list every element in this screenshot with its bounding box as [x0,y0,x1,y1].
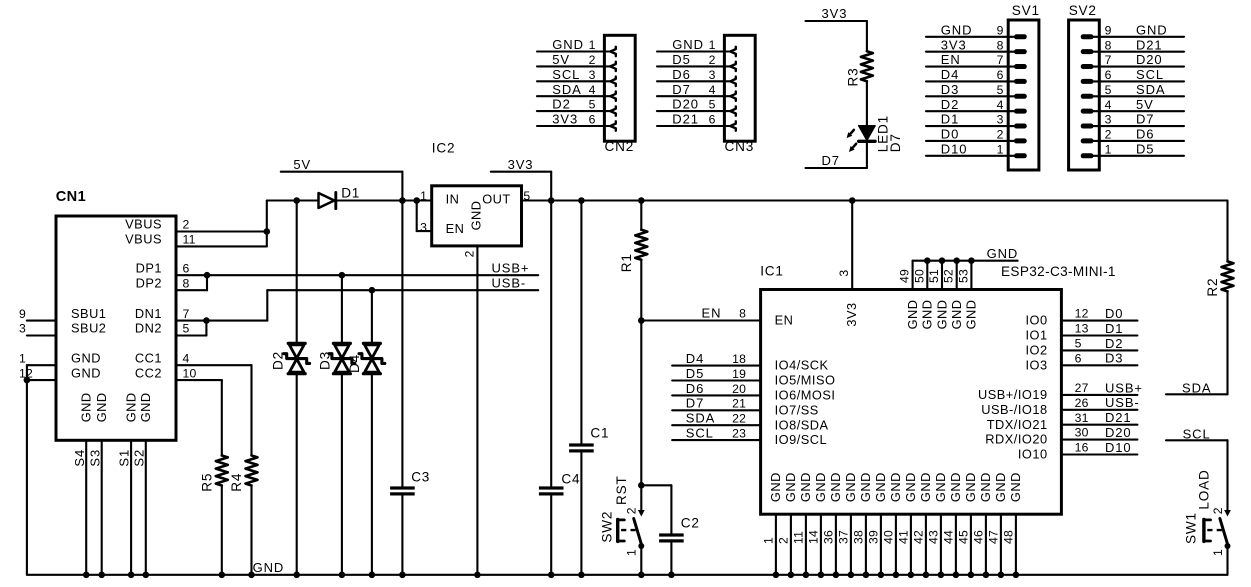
svg-text:3: 3 [420,221,427,235]
svg-text:23: 23 [732,427,746,441]
svg-text:D4: D4 [941,67,959,82]
svg-text:9: 9 [997,23,1004,37]
svg-text:S2: S2 [131,449,146,467]
svg-text:SBU2: SBU2 [71,321,106,336]
svg-text:20: 20 [732,382,746,396]
wire CN2 pin 4 net SDA [537,82,616,101]
svg-text:GND: GND [905,299,920,329]
wire SV1 pin 3 net D1 [926,112,1027,129]
svg-text:USB+: USB+ [492,261,530,276]
svg-text:GND: GND [948,472,963,502]
svg-text:8: 8 [997,38,1004,52]
svg-text:49: 49 [898,269,912,283]
svg-text:GND: GND [1136,22,1168,37]
svg-text:R5: R5 [200,473,215,492]
svg-text:2: 2 [709,53,716,67]
svg-text:41: 41 [896,530,910,544]
svg-text:D0: D0 [1105,306,1123,321]
svg-text:IN: IN [446,191,460,206]
svg-text:3V3: 3V3 [552,112,578,127]
svg-text:6: 6 [709,113,716,127]
svg-text:D1: D1 [1105,321,1123,336]
svg-text:SDA: SDA [686,411,715,426]
wire CN2 pin 3 net SCL [537,67,616,86]
svg-text:1: 1 [589,38,596,52]
svg-text:5: 5 [183,322,190,336]
wire SV1 pin 4 net D2 [926,97,1027,114]
capacitor C1 [569,425,609,452]
wire IC1 pin 30 net D20 [1061,425,1137,440]
svg-text:GND: GND [468,200,483,230]
wire C2 to rail [670,543,672,575]
svg-text:USB+: USB+ [1105,380,1143,395]
CN1 pin numbers [19,218,197,381]
svg-text:3: 3 [837,270,851,277]
wire CN2 pin 1 net GND [537,37,616,56]
wire CN1 DN1 pin 7 [176,320,267,322]
svg-text:C4: C4 [561,471,580,486]
wire SV2 pin 4 net 5V [1081,97,1184,114]
svg-text:1: 1 [19,351,26,365]
wire CN2 pin 5 net D2 [537,97,616,116]
wire D3 vertical [341,275,343,343]
svg-text:EN: EN [702,306,722,321]
net label SDA stub [1166,381,1228,396]
IC1 internal left pin labels [775,313,836,448]
connector CN1 (USB-C) [56,189,176,440]
svg-text:D3: D3 [1105,351,1123,366]
svg-text:D6: D6 [672,67,690,82]
ground rail [27,574,1228,576]
node D4 USB- tap [369,287,376,294]
svg-text:37: 37 [836,530,850,544]
svg-text:TDX/IO21: TDX/IO21 [987,417,1048,432]
svg-text:D3: D3 [317,351,332,370]
svg-text:D20: D20 [1136,52,1163,67]
svg-text:6: 6 [183,261,190,275]
svg-text:3V3: 3V3 [508,157,534,172]
svg-text:S3: S3 [87,449,102,467]
IC1 internal right pin labels [978,313,1048,462]
IC1 bottom pin numbers (rotated) [761,530,1015,544]
node D3 USB+ tap [339,272,346,279]
wire IC1 pin 16 net D10 [1061,440,1137,455]
svg-text:IO8/SDA: IO8/SDA [775,417,829,432]
capacitor C2 [659,516,700,543]
svg-text:LOAD: LOAD [1196,469,1211,509]
svg-text:31: 31 [1075,411,1089,425]
svg-text:RDX/IO20: RDX/IO20 [985,432,1047,447]
wire IC1 pin 26 net USB- [1061,395,1139,410]
wire CN1 SBU1 pin 9 [27,320,56,322]
wire IC1 pin 22 net SDA [672,411,760,426]
svg-text:2: 2 [997,128,1004,142]
svg-text:36: 36 [821,530,835,544]
svg-text:GND: GND [888,472,903,502]
svg-text:GND: GND [963,472,978,502]
svg-text:DP2: DP2 [136,275,162,290]
node D2 rail [293,572,300,579]
svg-text:11: 11 [791,531,805,544]
svg-text:1: 1 [709,38,716,52]
svg-text:VBUS: VBUS [125,217,162,232]
svg-text:13: 13 [1075,322,1089,336]
svg-text:3: 3 [1105,113,1112,127]
svg-text:IO10: IO10 [1018,447,1048,462]
svg-text:D10: D10 [1105,440,1132,455]
svg-text:D4: D4 [686,351,704,366]
svg-text:C3: C3 [411,469,430,484]
svg-text:7: 7 [1105,53,1112,67]
svg-text:D1: D1 [941,112,959,127]
svg-text:DP1: DP1 [136,260,162,275]
capacitor C3 [390,469,430,495]
wire DN riser to USB- line [266,290,268,320]
wire CN3 pin 1 net GND [657,37,736,56]
wire CN1 GND pin 12 [27,379,56,381]
node C4 rail [548,572,555,579]
svg-text:4: 4 [997,98,1004,112]
svg-text:4: 4 [589,83,596,97]
connector CN2 [604,35,635,154]
svg-text:5V: 5V [293,157,311,172]
svg-text:GND: GND [934,299,949,329]
svg-text:18: 18 [732,352,746,366]
wire CN1 DP2 pin 8 [176,289,207,291]
wire R1 top [640,201,642,230]
svg-text:1: 1 [1211,549,1225,556]
wire SW1 to rail corner [1226,546,1228,575]
node shield pad rail joins [83,572,90,579]
svg-text:5: 5 [997,83,1004,97]
svg-text:2: 2 [625,507,639,514]
net label SCL stub [1166,427,1228,442]
svg-text:IO1: IO1 [1025,328,1047,343]
IC1 top pin numbers 49-53 (rotated) [898,269,971,283]
wire C3 to rail [401,496,403,575]
svg-text:SBU1: SBU1 [71,306,106,321]
wire SV1 pin 8 net 3V3 [926,37,1027,54]
TVS diode D3 [317,343,355,373]
svg-text:D7: D7 [686,396,704,411]
svg-text:2: 2 [183,218,190,232]
wire C4 to rail [550,496,552,575]
svg-text:22: 22 [732,412,746,426]
svg-text:GND: GND [858,472,873,502]
svg-text:2: 2 [776,537,790,544]
TVS diode D4 [347,343,385,373]
svg-text:GND: GND [71,365,101,380]
svg-text:SV2: SV2 [1069,3,1097,18]
svg-text:3V3: 3V3 [822,6,848,21]
svg-text:SDA: SDA [552,82,581,97]
wire IC1 pin 23 net SCL [672,426,760,441]
connector CN3 [724,35,755,154]
svg-text:GND: GND [798,472,813,502]
node C1 top [578,197,585,204]
resistor R1 [619,230,648,272]
wire C1 vertical [580,201,582,444]
svg-text:4: 4 [709,83,716,97]
svg-text:EN: EN [775,313,794,328]
svg-text:GND: GND [978,472,993,502]
wire CN3 pin 3 net D6 [657,67,736,86]
wire CN2 pin 6 net 3V3 [537,112,616,131]
svg-text:GND: GND [552,37,584,52]
svg-text:GND: GND [768,472,783,502]
svg-text:OUT: OUT [482,191,511,206]
LED LED1 value D7 [847,115,903,152]
svg-text:IC1: IC1 [760,264,784,279]
op-amp/regulator IC2 [432,141,522,246]
wire IC1 pin 21 net D7 [672,396,760,411]
svg-text:52: 52 [942,269,956,283]
wire VBUS riser to 5V rail [266,201,268,247]
svg-text:D7: D7 [1136,112,1154,127]
svg-text:GND: GND [79,392,94,422]
wire D2 vertical [296,201,298,344]
wire 3V3 stub down to rail and C4 [550,172,552,201]
svg-text:IO4/SCK: IO4/SCK [775,358,829,373]
node 5V/C3 junction [399,197,406,204]
svg-text:4: 4 [1105,98,1112,112]
svg-text:3V3: 3V3 [844,302,859,326]
switch SW1 value LOAD [1183,469,1231,556]
svg-text:CN1: CN1 [56,189,86,205]
node IC1 bottom pin rail joins [773,572,780,579]
svg-text:GND: GND [71,350,101,365]
wire IC1 3V3 pin 3 riser [851,201,853,290]
svg-text:GND: GND [813,472,828,502]
node SW2 rail [638,572,645,579]
wire SV1 pin 9 net GND [926,22,1027,39]
svg-text:40: 40 [881,530,895,544]
wire IC1 pin 13 net D1 [1061,321,1137,336]
wire SV1 pin 5 net D3 [926,82,1027,99]
svg-text:3: 3 [19,322,26,336]
IC2 pin numbers [420,189,530,257]
svg-text:GND: GND [933,472,948,502]
svg-text:D5: D5 [672,52,690,67]
wire SV1 pin 6 net D4 [926,67,1027,84]
svg-text:VBUS: VBUS [125,232,162,247]
node D3 rail [339,572,346,579]
svg-text:GND: GND [903,472,918,502]
connector SV2 [1069,3,1100,170]
wire CN1 GND pin 1 [27,364,56,366]
wire IC1 pin 31 net D21 [1061,410,1137,425]
wire IC2 EN tap down [416,201,418,232]
wire 5V stub down to rail and C3 [401,172,403,201]
svg-text:44: 44 [941,530,955,544]
wire SV2 pin 3 net D7 [1081,112,1184,129]
resistor R2 [1205,261,1234,296]
wire IC1 pin 19 net D5 [672,366,760,381]
svg-text:D3: D3 [941,82,959,97]
wire IC1 pin 27 net USB+ [1061,380,1143,395]
svg-text:50: 50 [912,269,926,283]
svg-text:USB-: USB- [492,276,527,291]
svg-text:1: 1 [761,537,775,544]
svg-text:GND: GND [964,299,979,329]
svg-text:GND: GND [672,37,704,52]
svg-text:USB-: USB- [1105,395,1140,410]
svg-text:9: 9 [1105,23,1112,37]
wire CN1 ground drop to rail [26,365,28,575]
svg-text:CN3: CN3 [725,139,755,154]
svg-text:RST: RST [614,475,629,505]
svg-text:3V3: 3V3 [941,37,967,52]
capacitor C4 [539,471,580,495]
svg-text:D5: D5 [1136,141,1154,156]
wire SV2 pin 9 net GND [1081,22,1184,39]
wire R2 to SDA stub [1226,291,1228,394]
resistor R3 [846,51,873,86]
svg-text:IC2: IC2 [432,141,456,156]
svg-text:5: 5 [709,98,716,112]
wire SW2 to rail [640,546,642,575]
svg-text:IO2: IO2 [1025,343,1047,358]
svg-text:26: 26 [1075,396,1089,410]
svg-text:6: 6 [997,68,1004,82]
wire CN1 CC2 pin 10 to R5 [176,379,222,381]
svg-text:D0: D0 [941,127,959,142]
svg-text:USB-/IO18: USB-/IO18 [981,402,1047,417]
svg-text:GND: GND [843,472,858,502]
svg-text:2: 2 [1105,128,1112,142]
diode D1 [319,186,361,209]
wire LED1 to D7 label [866,141,868,168]
svg-text:D2: D2 [552,97,570,112]
svg-text:GND: GND [123,392,138,422]
svg-text:5V: 5V [552,52,570,67]
node R5 rail [219,572,226,579]
svg-text:11: 11 [183,233,196,247]
wire CN1 shield pads to ground rail [85,440,87,575]
net label 3V3 (top of R3) [806,6,867,21]
node 3V3/C4 junction [548,197,555,204]
svg-text:R2: R2 [1205,278,1220,297]
svg-text:2: 2 [462,250,476,257]
svg-text:D2: D2 [1105,336,1123,351]
node EN tap [638,317,645,324]
svg-text:7: 7 [183,307,190,321]
node IC2 GND rail [474,572,481,579]
wire CN3 pin 5 net D20 [657,97,736,116]
svg-text:GND: GND [918,472,933,502]
svg-text:1: 1 [1105,142,1112,156]
svg-text:ESP32-C3-MINI-1: ESP32-C3-MINI-1 [1001,264,1116,279]
svg-text:14: 14 [806,530,820,544]
svg-text:GND: GND [138,392,153,422]
wire IC1 pin 20 net D6 [672,381,760,396]
wire SV2 pin 8 net D21 [1081,37,1184,54]
svg-text:GND: GND [94,392,109,422]
svg-text:6: 6 [1075,351,1082,365]
CN1 pin names right column [125,217,162,381]
svg-text:45: 45 [956,530,970,544]
node IC1 3V3 rail tap [849,197,856,204]
TVS diode D2 [271,343,310,373]
svg-text:IO5/MISO: IO5/MISO [775,373,836,388]
svg-text:21: 21 [732,397,746,411]
IC1 internal bottom GND labels (rotated) [768,472,1023,502]
wire CN1 VBUS pin 11 [176,245,267,247]
node VBUS join [264,228,271,235]
svg-text:SCL: SCL [686,426,714,441]
svg-text:4: 4 [183,351,190,365]
svg-text:GND: GND [920,299,935,329]
wire SV2 pin 2 net D6 [1081,127,1184,144]
svg-text:D4: D4 [347,354,362,373]
net label D7 [806,153,867,168]
svg-text:GND: GND [1008,472,1023,502]
IC U1 ESP32-C3-MINI-1 (IC1) body [760,264,1116,515]
switch SW2 value RST [600,475,645,556]
wire CN1 CC1 pin 4 to R4 [176,364,252,366]
svg-text:43: 43 [926,530,940,544]
svg-text:8: 8 [1105,38,1112,52]
wire IC2 GND pin 2 to rail [476,246,478,575]
svg-text:10: 10 [183,366,197,380]
svg-text:C2: C2 [681,516,700,531]
svg-text:D1: D1 [341,186,360,201]
svg-text:5: 5 [1075,337,1082,351]
wire EN net to IC1 [641,319,759,321]
svg-text:47: 47 [986,530,1000,544]
svg-text:IO0: IO0 [1025,313,1047,328]
wire C2 branch [641,484,671,486]
svg-text:46: 46 [971,530,985,544]
svg-text:27: 27 [1075,381,1089,395]
wire CN3 pin 4 net D7 [657,82,736,101]
wire CN3 pin 6 net D21 [657,112,736,131]
wire SV2 pin 7 net D20 [1081,52,1184,69]
wire R1 bottom to SW2 [640,260,642,511]
svg-text:DN2: DN2 [135,321,162,336]
svg-text:5V: 5V [1136,97,1154,112]
svg-text:D21: D21 [672,112,699,127]
svg-text:CN2: CN2 [605,139,635,154]
node C2 rail [668,572,675,579]
svg-text:42: 42 [911,530,925,544]
svg-text:53: 53 [956,269,970,283]
svg-text:GND: GND [828,472,843,502]
svg-text:GND: GND [873,472,888,502]
svg-text:CC2: CC2 [135,365,162,380]
svg-text:1: 1 [420,189,427,203]
node R4 rail [248,572,255,579]
wire R4 to rail [250,486,252,575]
svg-text:GND: GND [993,472,1008,502]
svg-text:D21: D21 [1136,37,1163,52]
svg-text:D7: D7 [888,133,903,152]
node top GND bus joins [924,257,931,264]
connector SV1 [1008,3,1040,170]
IC1 internal top GND labels (rotated) [905,299,979,329]
svg-text:2: 2 [589,53,596,67]
svg-text:SW1: SW1 [1183,512,1198,544]
svg-text:1: 1 [625,549,639,556]
svg-text:51: 51 [927,269,941,283]
node IC2 EN tap [413,197,420,204]
wire IC1 pin 18 net D4 [672,351,760,366]
wire R5 to rail [221,486,223,575]
svg-text:R1: R1 [619,253,634,272]
net label 3V3 stub at IC2 OUT [491,157,551,172]
svg-text:D20: D20 [1105,425,1132,440]
svg-text:SV1: SV1 [1012,3,1040,18]
